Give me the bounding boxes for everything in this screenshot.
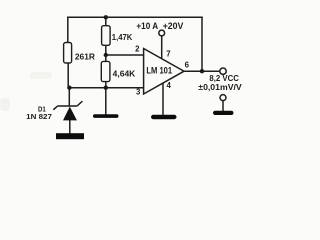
- svg-text:261R: 261R: [75, 51, 95, 61]
- svg-text:+10 A: +10 A: [136, 21, 158, 31]
- svg-text:7: 7: [166, 50, 170, 59]
- svg-text:8,2 VCC: 8,2 VCC: [209, 74, 239, 83]
- svg-text:LM 101: LM 101: [146, 65, 172, 75]
- svg-text:1,47K: 1,47K: [112, 33, 133, 42]
- svg-text:4,64K: 4,64K: [113, 69, 136, 78]
- svg-text:1N 827: 1N 827: [26, 112, 52, 121]
- svg-text:4: 4: [167, 81, 172, 90]
- svg-text:6: 6: [185, 61, 190, 70]
- svg-text:3: 3: [136, 88, 141, 97]
- svg-text:±0,01mV/V: ±0,01mV/V: [198, 83, 242, 92]
- svg-text:+20V: +20V: [163, 21, 184, 31]
- svg-text:2: 2: [135, 45, 140, 54]
